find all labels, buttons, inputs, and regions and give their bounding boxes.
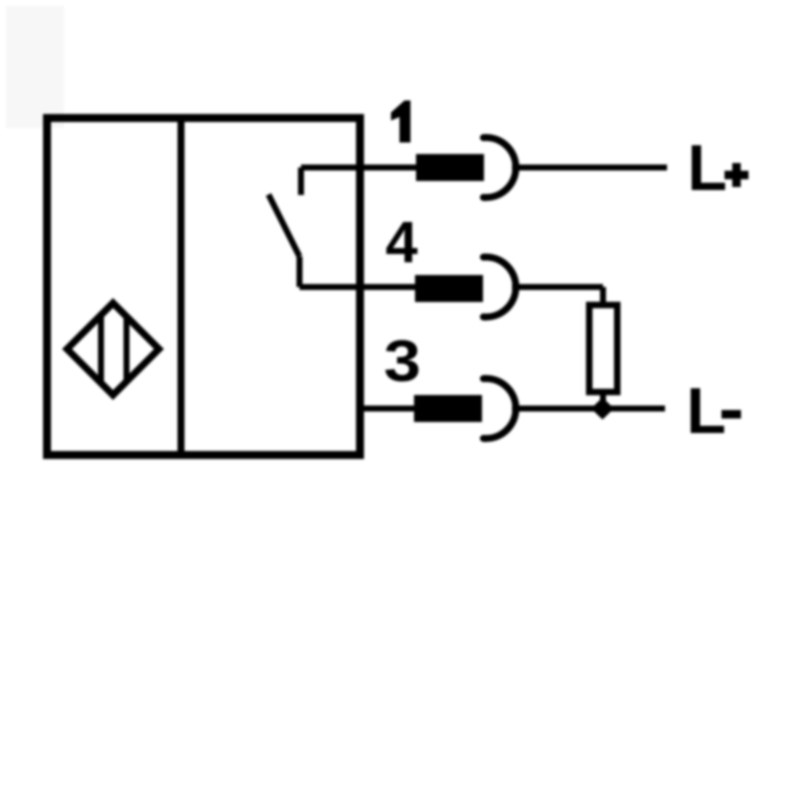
- svg-text:4: 4: [386, 210, 418, 275]
- svg-text:L: L: [687, 131, 727, 204]
- svg-text:3: 3: [384, 329, 421, 394]
- svg-text:L: L: [686, 374, 726, 447]
